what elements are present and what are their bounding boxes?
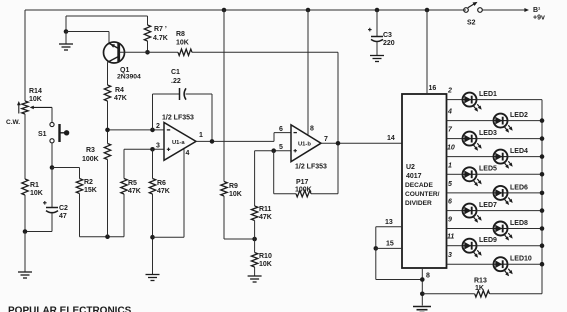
ground below emitter net [59, 32, 73, 51]
wire R4 to pin2 node [107, 101, 109, 130]
ground bottom-left [18, 272, 32, 278]
wire left rail drop to R14 [24, 10, 26, 101]
label B1 +9v [533, 7, 545, 22]
node rail junction to C3 [375, 8, 380, 13]
node rail junction LED9 [540, 243, 545, 248]
LED5 [463, 166, 498, 187]
wire S1 to node [51, 143, 53, 168]
svg-text:3: 3 [448, 252, 452, 259]
svg-text:R2: R2 [84, 179, 93, 186]
svg-text:R14: R14 [29, 88, 42, 95]
wire U2 pin 13 [376, 227, 402, 249]
wire to pin 5 [255, 150, 291, 152]
node emitter net junction [64, 29, 69, 34]
svg-text:2: 2 [447, 88, 452, 95]
svg-text:C2: C2 [59, 205, 68, 212]
label pin 10 [447, 145, 455, 152]
wire emitter-net top link [66, 16, 148, 32]
label pin 6 [448, 199, 452, 206]
wire pin 3 input [124, 148, 164, 150]
svg-text:U1-a: U1-a [172, 140, 185, 146]
svg-text:9: 9 [448, 217, 452, 224]
svg-text:8: 8 [310, 126, 314, 133]
label pin 8 U1-b [310, 126, 314, 133]
node bottom-left junction [23, 229, 28, 234]
node rail junction LED3 [540, 136, 545, 141]
node rail junction LED6 [540, 191, 545, 196]
LED10 [494, 256, 532, 277]
svg-text:COUNTER/: COUNTER/ [405, 191, 440, 198]
wire LED5 cathode to rail [477, 173, 543, 175]
svg-text:1/2 LF353: 1/2 LF353 [295, 164, 327, 171]
wire LED cathode rail [541, 100, 543, 294]
wire R8 to U1-b output node [192, 52, 338, 143]
capacitor C1 [153, 69, 213, 141]
svg-text:1: 1 [448, 162, 452, 169]
wire pin 2 input [108, 129, 165, 131]
svg-text:15: 15 [386, 241, 394, 248]
wire U2 pin 6 to LED7 [447, 210, 463, 212]
svg-text:220: 220 [383, 40, 395, 47]
ground below C3 [370, 56, 384, 62]
wire S2 to B+ arrow [483, 8, 530, 12]
wire R14 to R1 [24, 114, 26, 179]
node rail junction to U1-b pin 8 [306, 8, 311, 13]
wire LED4 cathode to rail [508, 156, 543, 158]
node rail junction LED4 [540, 154, 545, 159]
wire LED6 cathode to rail [508, 192, 543, 194]
svg-text:LED7: LED7 [479, 202, 497, 209]
resistor R11 [251, 151, 271, 221]
node Q1 base junction [145, 50, 150, 55]
wire R9 to divider node [224, 196, 255, 239]
wire to pin 6 [274, 133, 291, 142]
svg-text:4.7K: 4.7K [153, 35, 168, 42]
node output/C1 junction [210, 139, 215, 144]
resistor R6 [149, 149, 170, 195]
svg-text:11: 11 [447, 234, 454, 241]
LED9 [463, 237, 498, 258]
node U1-b output junction [336, 141, 341, 146]
node rail junction to R9 [222, 8, 227, 13]
wire U2 pin 7 to LED3 [447, 138, 463, 140]
label pin 7 [324, 136, 328, 143]
svg-text:U2: U2 [406, 164, 415, 171]
wire R2 to bottom net [79, 194, 81, 237]
node pin2/C1 junction [150, 128, 155, 133]
svg-text:4: 4 [186, 150, 190, 157]
svg-text:LED4: LED4 [510, 148, 528, 155]
label pin 1 [199, 132, 203, 139]
node pin8/pin13 junction [420, 277, 425, 282]
svg-text:47K: 47K [259, 214, 272, 221]
label pin 2 [447, 88, 452, 95]
wire C2 to bottom-left node [25, 213, 52, 232]
wire Q1 base [120, 51, 148, 53]
wire R3 leads [107, 130, 109, 237]
wire LED3 cathode to rail [477, 138, 543, 140]
ground below U2 pin 8 [413, 307, 431, 312]
wire U1-a output [196, 140, 274, 142]
LED6 [494, 184, 529, 205]
svg-text:16: 16 [429, 85, 437, 92]
wire U1-b output to U2 pin 14 [321, 142, 402, 144]
LED2 [494, 112, 529, 133]
svg-text:6: 6 [279, 126, 283, 133]
svg-text:1K: 1K [475, 285, 484, 292]
label pin 7 [448, 127, 453, 134]
svg-text:U1-b: U1-b [298, 142, 311, 148]
resistor R3 [82, 144, 111, 164]
resistor R5 [121, 149, 141, 195]
wire U2 pin 15 [376, 247, 402, 249]
svg-text:LED2: LED2 [510, 112, 528, 119]
svg-text:100K: 100K [295, 187, 312, 194]
svg-text:S2: S2 [467, 20, 476, 27]
wire pin5 node to P17 [274, 151, 296, 194]
label pin 8 U2 [426, 273, 430, 280]
label pin 15 [386, 241, 394, 248]
svg-text:LED5: LED5 [479, 166, 497, 173]
svg-text:47K: 47K [114, 95, 127, 102]
svg-text:R9: R9 [229, 183, 238, 190]
svg-text:2N3904: 2N3904 [117, 74, 141, 81]
node pin8/R13 junction [420, 292, 425, 297]
node rail junction LED2 [540, 118, 545, 123]
node R9/R10/R11 junction [252, 221, 257, 242]
wire LED8 cathode to rail [508, 228, 543, 230]
node bottom net junction R3 [105, 234, 110, 239]
node pin3/R6 junction [150, 147, 155, 152]
resistor R10 [251, 239, 272, 268]
node pin2/R4/R3 junction [105, 128, 110, 133]
svg-text:8: 8 [426, 273, 430, 280]
wire base node to R8 [148, 51, 179, 53]
svg-text:14: 14 [387, 135, 395, 142]
svg-text:P17: P17 [296, 179, 309, 186]
switch S1 [38, 122, 69, 142]
caption POPULAR ELECTRONICS [8, 306, 132, 312]
wire U2 pin 9 to LED8 [447, 228, 494, 230]
svg-text:LED6: LED6 [510, 184, 528, 191]
wire bottom net R2-R5 [80, 194, 125, 237]
wire U2 pin 8 to ground [421, 268, 423, 306]
wire LED7 cathode to rail [477, 210, 543, 212]
svg-text:C1: C1 [171, 69, 180, 76]
label pin 1 [448, 162, 452, 169]
label pin 11 [447, 234, 454, 241]
wire LED2 cathode to rail [508, 120, 543, 122]
wire U1-b pin 8 V+ [307, 10, 309, 135]
node rail junction LED5 [540, 172, 545, 177]
svg-text:4017: 4017 [406, 173, 422, 180]
label pin 9 [448, 217, 452, 224]
potentiometer P17 [295, 179, 312, 197]
label pin 13 [385, 219, 393, 226]
svg-text:C.W.: C.W. [6, 119, 20, 126]
wire +9V top rail [25, 9, 466, 11]
svg-text:3: 3 [156, 143, 160, 150]
wire node to R2 [52, 168, 80, 179]
wire Q1 collector to R4 [107, 62, 109, 85]
svg-text:DIVIDER: DIVIDER [405, 200, 432, 207]
label pin 6 [279, 126, 283, 133]
IC U2 4017 decade counter [402, 94, 447, 268]
svg-text:R1: R1 [30, 182, 39, 189]
svg-text:47K: 47K [157, 188, 170, 195]
LED4 [494, 148, 529, 169]
capacitor C2 [43, 168, 68, 221]
capacitor C3 [368, 10, 395, 47]
wire LED1 cathode to rail [477, 99, 543, 101]
svg-text:10: 10 [447, 145, 455, 152]
wire P17 to output node [311, 143, 338, 193]
svg-text:7: 7 [324, 136, 328, 143]
resistor R13 [422, 278, 489, 298]
svg-text:100K: 100K [82, 156, 99, 163]
svg-text:R8: R8 [176, 31, 185, 38]
wire R10 to ground [254, 267, 256, 276]
svg-text:LED8: LED8 [510, 220, 528, 227]
wire LED9 cathode to rail [477, 245, 543, 247]
svg-text:47: 47 [59, 213, 67, 220]
LED8 [494, 220, 529, 241]
svg-text:R3: R3 [86, 147, 95, 154]
svg-text:LED1: LED1 [479, 91, 497, 98]
svg-text:R11: R11 [259, 206, 272, 213]
node rail junction LED7 [540, 208, 545, 213]
svg-text:R13: R13 [474, 278, 487, 285]
wire node to ground [24, 232, 26, 272]
svg-text:10K: 10K [259, 261, 272, 268]
svg-text:10K: 10K [176, 40, 189, 47]
wire pin13/15 to ground net [376, 248, 423, 279]
wire emitter net to Q1 [66, 32, 109, 44]
node pin13/pin15 junction [374, 246, 379, 251]
label pin 5 [448, 181, 452, 188]
svg-text:4: 4 [447, 109, 452, 116]
ground below R10 [248, 276, 262, 282]
label pin 3 [156, 143, 160, 150]
ground below R6 [146, 275, 160, 281]
svg-text:DECADE: DECADE [405, 182, 433, 189]
wire U2 pin 5 to LED6 [447, 192, 494, 194]
potentiometer R14 [17, 88, 52, 114]
svg-text:R5: R5 [128, 180, 137, 187]
svg-text:.22: .22 [171, 78, 181, 85]
wire U2 pin 16 to rail [426, 10, 428, 94]
svg-text:LED10: LED10 [510, 256, 532, 263]
svg-text:POPULAR ELECTRONICS: POPULAR ELECTRONICS [8, 306, 132, 312]
svg-text:47K: 47K [128, 188, 141, 195]
label pin 3 [448, 252, 452, 259]
node rail junction to U2 pin 16 [425, 8, 430, 13]
wire R6 to ground [152, 194, 154, 274]
resistor R1 [22, 179, 43, 197]
svg-text:10K: 10K [30, 190, 43, 197]
wire U2 pin 4 to LED2 [447, 120, 494, 122]
wire U2 pin 2 to LED1 [447, 99, 463, 101]
svg-text:1: 1 [199, 132, 203, 139]
transistor Q1 2N3904 [104, 42, 142, 81]
node rail junction LED8 [540, 226, 545, 231]
svg-text:15K: 15K [84, 187, 97, 194]
label pin 5 [279, 144, 283, 151]
wire U1-a pin 4 to ground net [153, 148, 185, 237]
svg-text:C3: C3 [383, 32, 392, 39]
LED1 [463, 91, 498, 112]
svg-text:10K: 10K [29, 96, 42, 103]
svg-text:13: 13 [385, 219, 393, 226]
svg-text:LED9: LED9 [479, 237, 497, 244]
svg-text:5: 5 [448, 181, 452, 188]
resistor R2 [76, 179, 97, 195]
wire C3 to ground [376, 42, 378, 55]
wire LED10 cathode to rail [508, 263, 543, 265]
label pin 4 [447, 109, 452, 116]
svg-text:6: 6 [448, 199, 452, 206]
node R6/pin4 ground junction [150, 235, 155, 240]
op-amp U1-a [162, 115, 196, 161]
svg-text:10K: 10K [229, 191, 242, 198]
node S1/C2/R2 junction [50, 165, 55, 170]
svg-text:+9v: +9v [533, 15, 545, 22]
label pin 2 [156, 123, 160, 130]
LED3 [463, 130, 498, 151]
label pin 14 [387, 135, 395, 142]
LED7 [463, 202, 498, 223]
wire U2 pin 1 to LED5 [447, 173, 463, 175]
label pin 4 [186, 150, 190, 157]
node rail junction LED10 [540, 262, 545, 267]
resistor R7 [144, 25, 167, 42]
label pin 16 [429, 85, 437, 92]
switch S2 [464, 2, 483, 27]
label C.W. [6, 119, 20, 126]
node pin5/P17 junction [271, 148, 276, 153]
svg-text:LED3: LED3 [479, 130, 497, 137]
svg-text:R7 ’: R7 ’ [154, 26, 167, 33]
wire R7 to base node [147, 41, 149, 52]
wire R14 wiper to S1 [51, 107, 53, 122]
resistor R8 [176, 31, 192, 56]
svg-text:S1: S1 [38, 131, 47, 138]
svg-text:1/2 LF353: 1/2 LF353 [162, 115, 194, 122]
op-amp U1-b [291, 125, 327, 171]
wire U2 pin 11 to LED9 [447, 245, 463, 247]
svg-text:2: 2 [156, 123, 160, 130]
wire R1 to node [24, 195, 26, 232]
svg-text:B¹: B¹ [533, 7, 541, 14]
svg-text:5: 5 [279, 144, 283, 151]
svg-text:R6: R6 [157, 180, 166, 187]
wire R13 to LED rail [490, 293, 543, 295]
wire U2 pin 10 to LED4 [447, 156, 494, 158]
resistor R4 [104, 85, 127, 102]
svg-text:R10: R10 [259, 253, 272, 260]
svg-text:R4: R4 [115, 87, 124, 94]
resistor R9 [221, 10, 242, 198]
wire U2 pin 3 to LED10 [447, 263, 494, 265]
